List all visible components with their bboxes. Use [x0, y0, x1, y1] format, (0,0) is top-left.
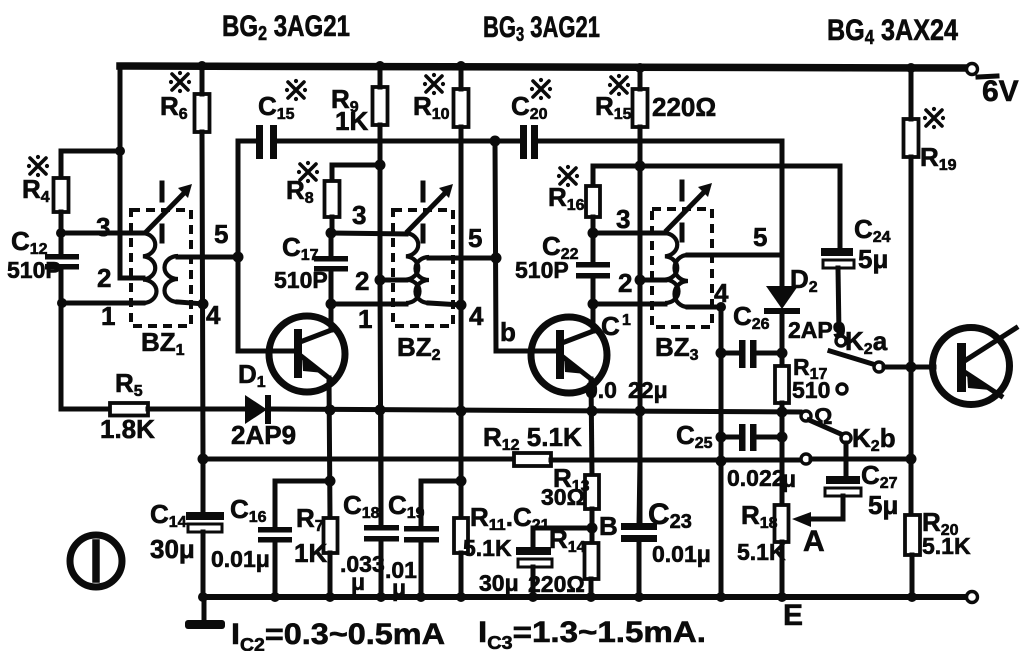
node emitter BG3 / AVC line [587, 406, 598, 417]
label IC3 current [478, 616, 706, 651]
wire BG3 base rail [495, 141, 556, 351]
label R11 5.1K [463, 502, 513, 561]
wire AVC rail down to R18 [780, 412, 785, 505]
svg-text:1: 1 [622, 312, 631, 329]
svg-text:BG3 3AG21: BG3 3AG21 [483, 11, 600, 46]
wire left rail from top to BZ1 tap2 [120, 66, 143, 278]
label C26 0.022u [585, 301, 770, 403]
wire R20 to ground [910, 555, 915, 597]
label E [783, 599, 803, 632]
node ground R11 [456, 592, 466, 602]
node R10 rail / AVC line [456, 406, 467, 417]
svg-text:3: 3 [616, 204, 630, 234]
label pin 5 BZ3 [753, 222, 767, 252]
label BZ3 [655, 332, 699, 364]
node tap2 BZ3 / R15 rail [635, 275, 646, 286]
node tap3 BZ3 junction [588, 228, 599, 239]
svg-text:6V: 6V [982, 75, 1019, 108]
wire tap2 BZ3 [640, 278, 665, 283]
node ground C23 [634, 592, 644, 602]
wire C15 left to BG2 base rail [238, 141, 294, 351]
svg-text:B: B [599, 511, 618, 541]
resistor R9 [373, 87, 388, 125]
wire tap5 BZ2 to BG3 base rail [429, 256, 496, 261]
wire R19 rail [909, 68, 914, 515]
label B [599, 511, 618, 541]
wire detector out line y166 [593, 166, 840, 249]
transistor BG2 [269, 316, 345, 392]
wire BG3 emitter rail [591, 379, 592, 475]
wire R8 jog [332, 165, 380, 181]
wire R10 rail [459, 66, 464, 518]
label R13 30ohm [541, 463, 590, 510]
label pin 4 BZ2 [469, 301, 484, 331]
node ground R7 [325, 592, 335, 602]
label b base BG3 [500, 317, 516, 347]
svg-text:0.01μ: 0.01μ [652, 541, 711, 567]
resistor R19 [904, 119, 919, 157]
label R8 [286, 161, 319, 207]
node R15 rail / AVC line [635, 406, 646, 417]
wire R4 to C12 [59, 212, 64, 254]
node neutralizing line to BG3 base [490, 136, 501, 147]
label C17 510P [274, 232, 328, 293]
svg-text:4: 4 [206, 300, 221, 330]
capacitor C23 [621, 523, 657, 542]
wire R14 to ground [589, 579, 594, 597]
svg-text:IC3=1.3~1.5mA.: IC3=1.3~1.5mA. [478, 616, 706, 651]
wire C22 bottom to tap1 [591, 278, 596, 304]
node C25 left / filter rail [716, 432, 727, 443]
svg-text:4: 4 [469, 301, 484, 331]
wire K2b to C27 [844, 443, 849, 477]
diode D2 [764, 286, 800, 314]
resistor R15 [633, 89, 648, 127]
wire tap3 BZ3 [593, 231, 665, 236]
label R7 1K [294, 503, 327, 568]
capacitor C27 electrolytic [825, 476, 861, 496]
label R15 220ohm [595, 74, 716, 123]
label pin 2 BZ3 [618, 268, 632, 298]
node top rail / R15 [635, 63, 645, 73]
node ground R20 [907, 592, 917, 602]
svg-text:220Ω: 220Ω [652, 92, 716, 122]
wire R4 top branch [61, 151, 121, 178]
svg-text:μ: μ [351, 569, 365, 595]
transformer BZ2 core adjust arrow [408, 183, 453, 241]
transistor BG4 [933, 328, 1017, 405]
resistor R16 [586, 186, 600, 217]
capacitor C22 [576, 262, 610, 279]
label R14 220ohm [528, 524, 586, 597]
svg-text:1K: 1K [335, 106, 368, 136]
svg-text:30Ω: 30Ω [541, 484, 585, 510]
node R15 bottom / supply jog [635, 161, 646, 172]
svg-text:A: A [803, 525, 825, 558]
label A [803, 525, 825, 558]
label IC2 current [231, 618, 445, 651]
svg-text:510P: 510P [7, 257, 61, 283]
node top rail / R9 [375, 61, 385, 71]
transformer BZ3 dashed box [652, 209, 712, 327]
wire tap3 BZ1 [61, 231, 143, 236]
label C27 5u [861, 460, 898, 520]
svg-text:3: 3 [96, 212, 110, 242]
svg-text:5.1K: 5.1K [922, 533, 971, 559]
capacitor C21 electrolytic [516, 547, 552, 567]
node tap1 junction [57, 298, 67, 308]
transistor BG3 [531, 317, 607, 393]
label pin 4 BZ1 [206, 300, 221, 330]
svg-text:2: 2 [355, 266, 369, 296]
wire R15 rail [638, 68, 643, 525]
svg-text:4: 4 [714, 278, 729, 308]
label C25 0.022u [676, 420, 796, 492]
svg-text:E: E [783, 599, 803, 632]
label R6 [160, 71, 191, 123]
svg-text:2: 2 [97, 263, 111, 293]
wire C18 to ground [379, 541, 384, 597]
node B junction [587, 523, 598, 534]
label pin 4 BZ3 [714, 278, 729, 308]
circled figure number 1 [70, 535, 122, 587]
label R5 1.8K [100, 368, 155, 444]
label R19 [920, 107, 957, 174]
node tap4 / R6 rail [198, 299, 209, 310]
capacitor C18 [364, 525, 399, 542]
svg-text:2AP9: 2AP9 [231, 420, 296, 450]
wire R6 rail [202, 66, 203, 459]
transformer BZ2 dashed box [393, 210, 453, 326]
wire tap4 BZ1 to rail [178, 302, 204, 304]
resistor R17 [775, 366, 789, 403]
wire down to R5 line [61, 303, 110, 409]
transformer BZ1 dashed box [131, 210, 191, 326]
node ground R14 [586, 592, 596, 602]
svg-text:BG4 3AX24: BG4 3AX24 [827, 14, 958, 49]
capacitor C16 [258, 527, 292, 543]
wire R13 to B [590, 509, 595, 543]
svg-text:5: 5 [214, 219, 228, 249]
capacitor C25 [721, 424, 782, 451]
wire B to C21 [533, 528, 592, 548]
transformer BZ3 core adjust arrow [667, 182, 712, 240]
label D1 2AP9 [231, 359, 296, 450]
resistor R18 potentiometer [775, 505, 789, 542]
wire filter rail x718 [719, 307, 724, 597]
svg-text:22μ: 22μ [628, 377, 668, 403]
wire C16 to ground [273, 542, 278, 597]
label C18 .033u [340, 490, 385, 595]
node tap2 BZ2 / R9 rail [375, 275, 386, 286]
label R18 5.1K [737, 500, 786, 565]
svg-text:30μ: 30μ [150, 534, 195, 564]
contact open K2b on bias line [801, 454, 811, 464]
svg-text:BG2 3AG21: BG2 3AG21 [222, 10, 350, 45]
svg-text:0.022: 0.022 [727, 465, 785, 491]
svg-text:5μ: 5μ [858, 244, 888, 274]
resistor R4 [54, 178, 69, 212]
wire tap4 BZ3 to ground rail [688, 305, 721, 310]
label R20 5.1K [922, 507, 971, 559]
node R10 rail / C19 bracket [456, 476, 467, 487]
capacitor C26 [721, 340, 782, 368]
label pin 5 BZ1 [214, 219, 228, 249]
wire R7 to ground [328, 553, 333, 597]
capacitor C17 [314, 256, 348, 272]
capacitor C19 [404, 526, 439, 543]
node R4 branch / left rail [115, 146, 125, 156]
node tap1 BZ2 / BG2 collector [326, 299, 337, 310]
wire C19 to ground [419, 542, 424, 597]
wire R5 to D1 [148, 407, 245, 412]
node C26 left / filter rail [716, 348, 727, 359]
node ground C21 [528, 592, 538, 602]
capacitor C12 [45, 254, 79, 270]
label C20 [511, 78, 552, 123]
wire tap1 BZ2 [331, 302, 406, 307]
wire C18 stem [379, 410, 384, 526]
wire C22 top stem [591, 233, 596, 263]
transformer BZ3 secondary winding [675, 255, 689, 307]
node C25 right [777, 432, 788, 443]
node ground C16 [270, 592, 280, 602]
label C21 30u [479, 502, 550, 596]
label R10 [413, 73, 450, 123]
transformer BZ2 secondary winding [416, 257, 430, 303]
svg-text:5: 5 [468, 223, 482, 253]
wire tap1 BZ3 [593, 302, 665, 307]
capacitor C15 [256, 125, 277, 159]
wire AVC line D1 to right [270, 409, 800, 412]
svg-text:b: b [500, 317, 516, 347]
node R8 top jog [375, 160, 386, 171]
wire tap3 BZ2 [331, 233, 406, 234]
node tap5 BZ2 / BG3 base rail [491, 253, 502, 264]
label BG4 3AX24 [827, 14, 958, 49]
svg-text:30μ: 30μ [479, 570, 519, 596]
resistor R8 [325, 181, 340, 217]
label pin 2 BZ2 [355, 266, 369, 296]
node tap4 BZ3 / filter rail [716, 302, 726, 312]
label pin 5 BZ2 [468, 223, 482, 253]
node ground C18 [376, 592, 386, 602]
wire R16 to tap3 junction [591, 217, 596, 234]
svg-text:1: 1 [101, 301, 115, 331]
wire C17 bottom to tap1 [329, 271, 334, 304]
wire top -6V supply rail [120, 66, 965, 68]
label C collector BG3 [601, 311, 631, 341]
label R4 [22, 155, 50, 206]
wire C17 top stem [329, 233, 334, 257]
capacitor C24 electrolytic [821, 248, 854, 268]
contact open K2a spare [837, 384, 847, 394]
wire R9 rail [378, 66, 383, 280]
label C22 510P [515, 231, 579, 283]
label C15 [258, 79, 307, 123]
wire C19 bracket [421, 481, 461, 527]
svg-text:510: 510 [792, 377, 830, 403]
wire tap4 BZ2 to R10 rail [429, 303, 461, 305]
label pin 3 BZ3 [616, 204, 630, 234]
wire bias line R12 to K2b contact [551, 458, 800, 463]
node ground C14 [198, 592, 208, 602]
label pin 1 BZ2 [358, 304, 372, 334]
wire C16 bracket [275, 481, 330, 527]
wire C24 to K2a contact [838, 268, 839, 334]
svg-text:0.0: 0.0 [585, 377, 617, 403]
svg-text:510P: 510P [515, 257, 569, 283]
resistor R10 [454, 89, 469, 127]
label K2b [852, 423, 896, 455]
wire bias line to R19 rail [811, 457, 911, 462]
label C24 5u [854, 214, 891, 274]
resistor R7 [324, 518, 338, 553]
wire C12 bottom [59, 269, 64, 303]
wire BG2 emitter rail [329, 378, 330, 518]
svg-text:3: 3 [352, 200, 366, 230]
node emitter / C16 bracket [325, 476, 336, 487]
svg-text:1K: 1K [294, 538, 327, 568]
wire R11 to ground [459, 553, 464, 597]
node R17 / AVC line [777, 407, 788, 418]
svg-text:510P: 510P [274, 267, 328, 293]
node filter rail / bias line [716, 456, 727, 467]
wire tap1 BZ1 [62, 301, 143, 306]
svg-text:1.8K: 1.8K [100, 414, 155, 444]
node ground R18 [777, 592, 787, 602]
label R16 [548, 165, 585, 214]
wire R17 to AVC line [780, 403, 785, 412]
resistor R20 [905, 515, 920, 555]
wire C23 to ground [637, 542, 642, 597]
svg-text:220Ω: 220Ω [528, 571, 585, 597]
wire ground rail [203, 594, 966, 600]
wire C21 to ground [531, 567, 536, 597]
node D2 rail / C26 [777, 348, 788, 359]
terminal ground right [967, 592, 978, 603]
label R12 5.1K [483, 422, 582, 454]
node bias line / R19 rail [906, 454, 917, 465]
label pin 2 BZ1 [97, 263, 111, 293]
switch K2b [801, 411, 851, 443]
label BG3 3AG21 [483, 11, 600, 46]
label C23 0.01u [648, 498, 711, 567]
label pin 3 BZ1 [96, 212, 110, 242]
node BG4 base / R19 rail [906, 362, 917, 373]
node tap4 BZ2 / R10 rail [456, 300, 467, 311]
transformer BZ1 core adjust arrow [147, 183, 192, 241]
label R9 1K [331, 84, 368, 136]
node tap3 BZ2 junction [326, 228, 337, 239]
label BG2 3AG21 [222, 10, 350, 45]
label K2a [845, 326, 888, 358]
wire C20 to D2 [538, 141, 782, 287]
resistor R6 [195, 94, 210, 132]
wire bias line from C14 corner to R12 [203, 457, 514, 462]
label C14 30u [150, 499, 195, 564]
transformer BZ3 primary winding [665, 233, 679, 303]
label C16 0.01u [211, 494, 270, 572]
wire tap5 BZ3 to D2 [688, 253, 782, 258]
wire tap5 BZ1 to rail [178, 255, 238, 260]
node tap1 BZ3 / BG3 collector [588, 299, 599, 310]
transformer BZ2 primary winding [406, 233, 420, 303]
wire K2a to BG4 base [884, 365, 934, 370]
terminal -6V [967, 64, 1019, 109]
node ground C19 [416, 592, 426, 602]
node top rail / R6 [197, 61, 207, 71]
label R17 510ohm [792, 354, 832, 429]
switch K2a [830, 336, 884, 372]
node tap5 / BG2 base rail [233, 252, 244, 263]
wire D2 to R17 [780, 313, 785, 366]
node AVC line corner [198, 454, 209, 465]
node top rail / R10 [456, 61, 466, 71]
wire R8 to tap3 junction [330, 217, 335, 234]
resistor R13 [585, 475, 599, 509]
node ground filter rail [716, 592, 726, 602]
svg-text:5.1K: 5.1K [737, 539, 786, 565]
svg-text:5: 5 [753, 222, 767, 252]
label C19 .01u [385, 490, 425, 601]
label BZ1 [141, 327, 185, 359]
wire BG3 collector [591, 304, 596, 331]
label pin 3 BZ2 [352, 200, 366, 230]
wire supply jog to R16 [593, 166, 640, 186]
wire tap2 BZ2 [380, 278, 406, 283]
capacitor C14 electrolytic [186, 512, 224, 532]
transformer BZ1 secondary winding [165, 256, 179, 302]
wire C23 stem [639, 461, 640, 525]
wire coupling line C15 to C20 [277, 139, 520, 144]
node top rail / R19 [906, 63, 916, 73]
wire R18 to ground [780, 542, 785, 597]
wire C14 to ground rail [201, 532, 206, 597]
node emitter / AVC line [325, 405, 336, 416]
ground symbol [185, 597, 225, 629]
label D2 2AP9 [788, 264, 846, 343]
svg-text:R12 5.1K: R12 5.1K [483, 422, 582, 454]
transformer BZ1 primary winding [143, 233, 157, 303]
diode D1 [245, 395, 271, 424]
wire C14 stem [201, 459, 206, 513]
resistor R11 [454, 518, 468, 553]
wire R9 rail lower [380, 280, 381, 525]
node tap3 junction [56, 228, 66, 238]
svg-text:5μ: 5μ [868, 490, 898, 520]
svg-text:2: 2 [618, 268, 632, 298]
wire C27 wiper arm to R18 [792, 496, 843, 527]
label BZ2 [397, 332, 441, 364]
resistor R14 [585, 543, 599, 579]
wire BG2 collector [329, 304, 334, 330]
svg-text:0.01μ: 0.01μ [211, 546, 270, 572]
capacitor C20 [520, 125, 538, 159]
label C12 510P [7, 226, 61, 283]
svg-text:5.1K: 5.1K [463, 535, 512, 561]
label pin 1 BZ1 [101, 301, 115, 331]
svg-text:1: 1 [358, 304, 372, 334]
resistor R5 [110, 403, 148, 416]
svg-text:μ: μ [782, 466, 796, 492]
resistor R12 [514, 453, 551, 466]
node R9 rail / AVC line [375, 405, 386, 416]
